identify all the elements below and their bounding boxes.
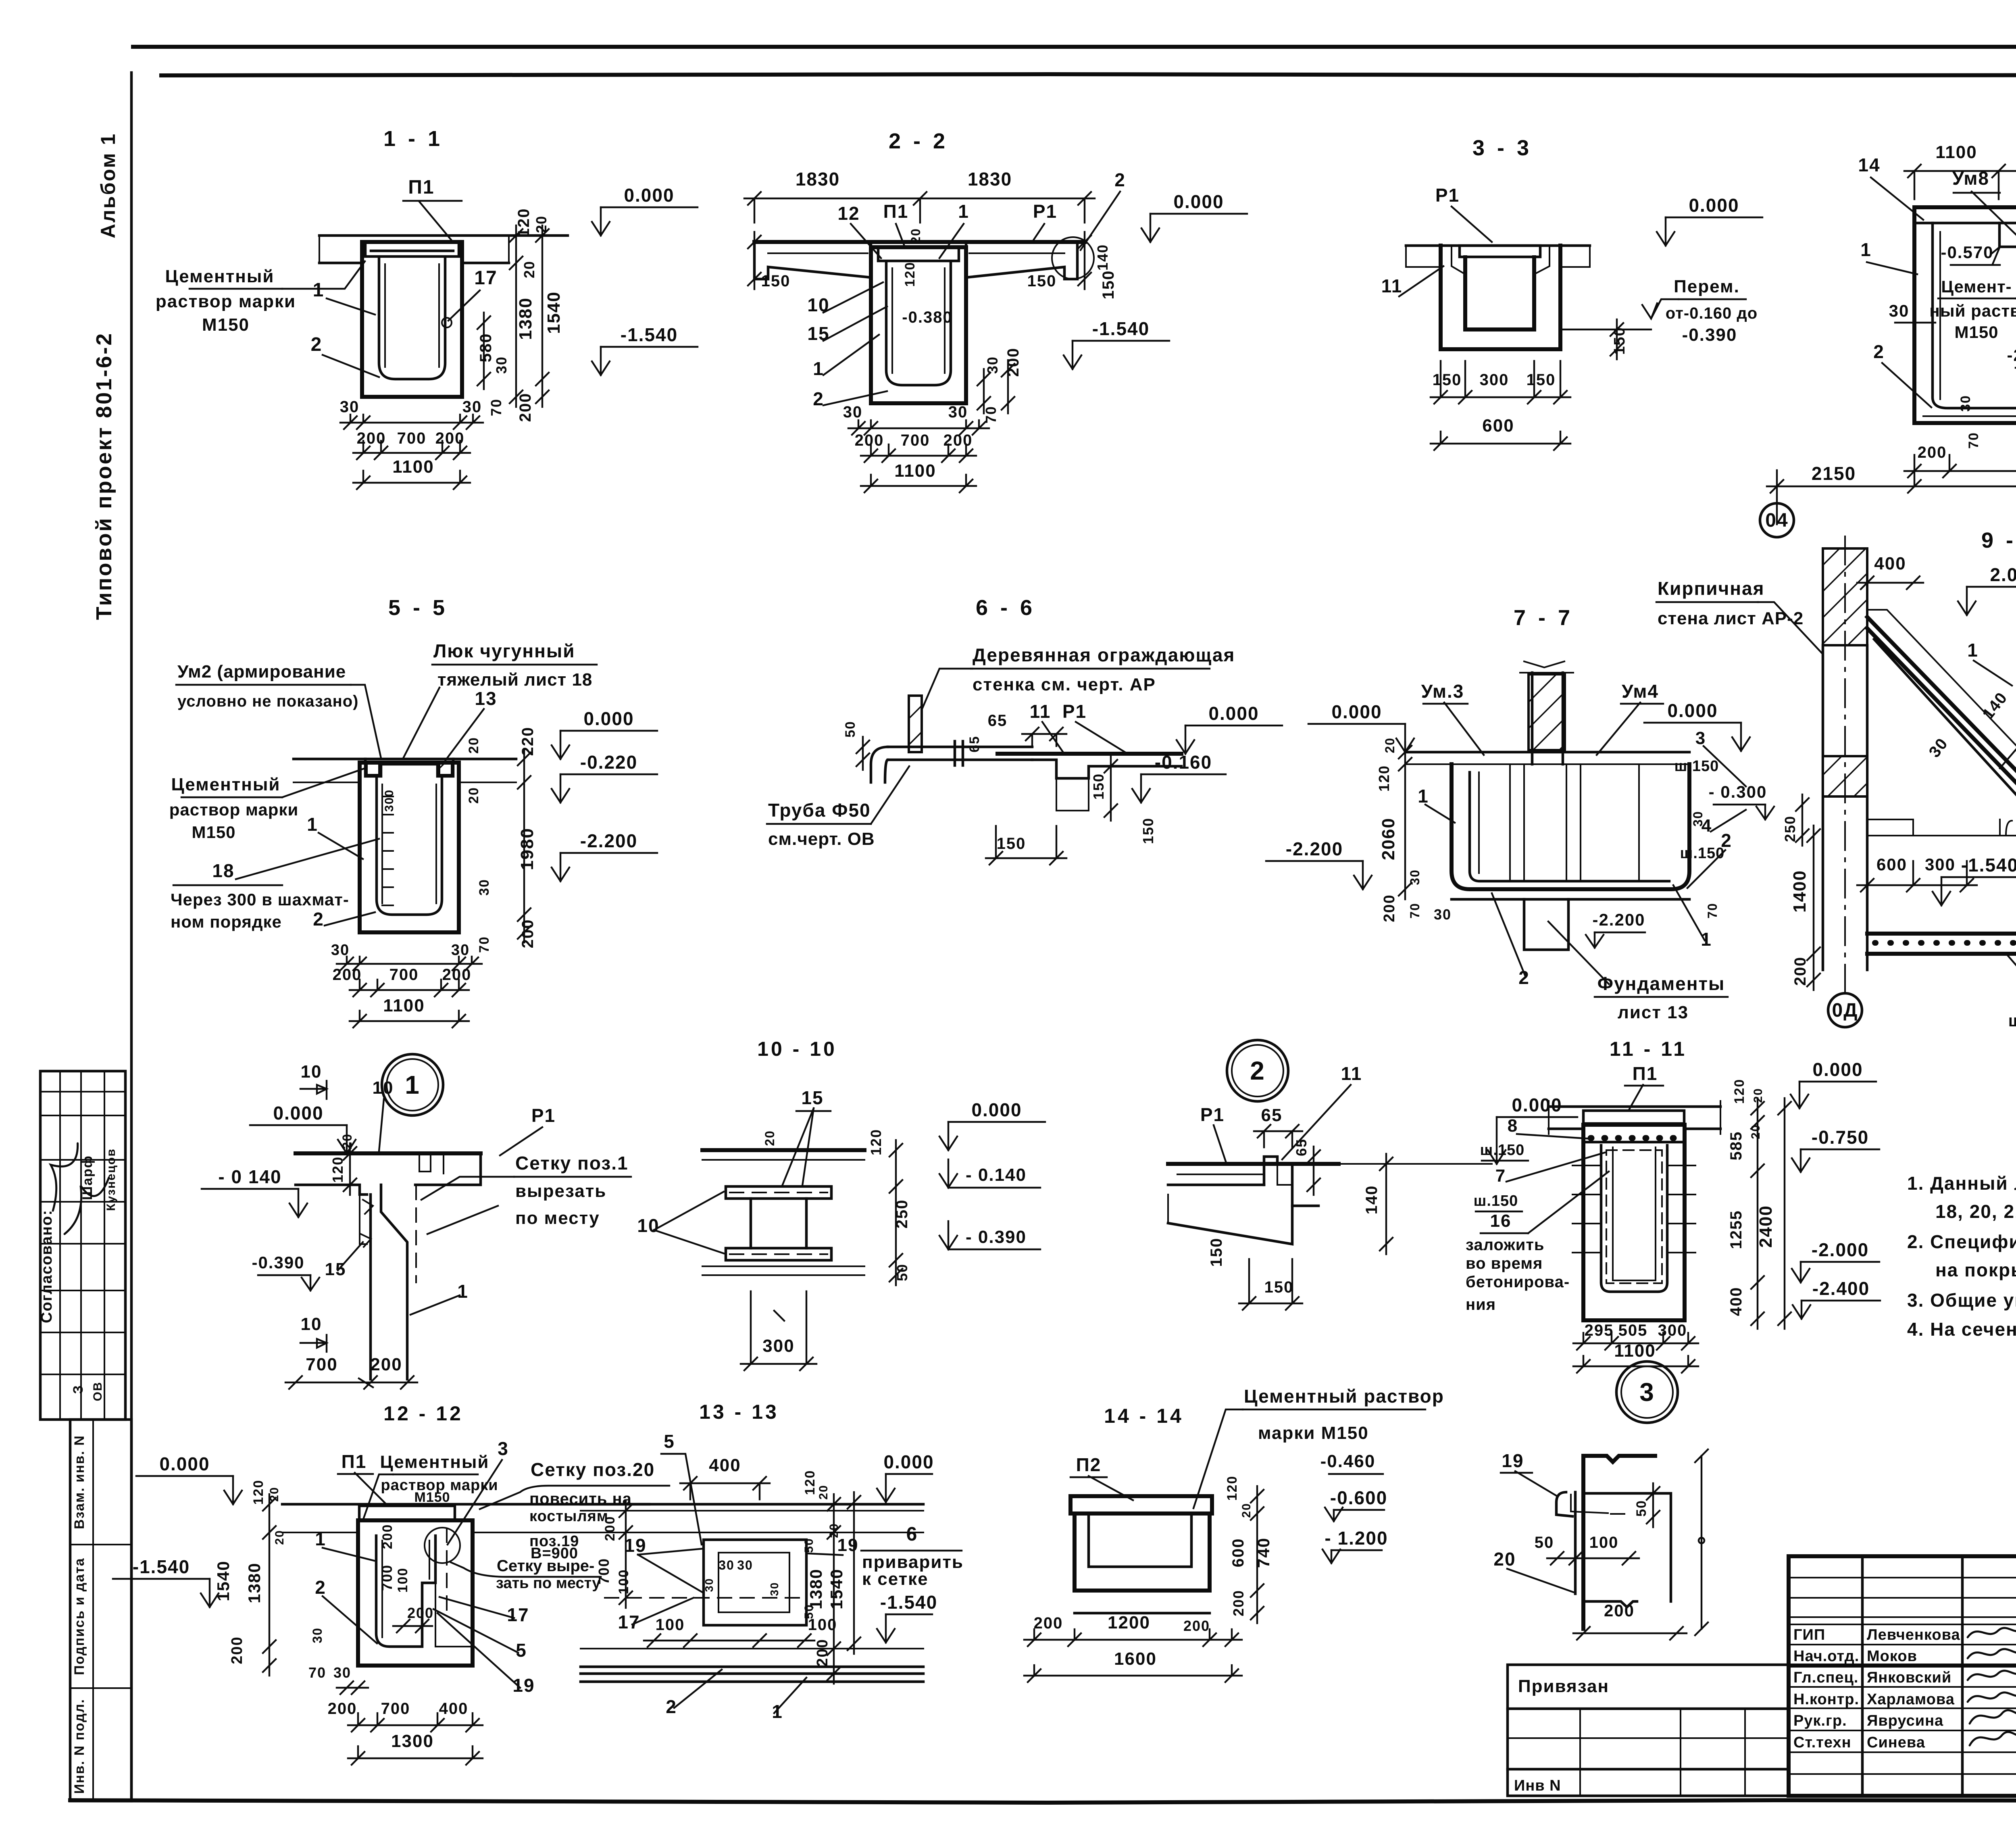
svg-text:200: 200 — [1791, 957, 1809, 986]
svg-text:ш. 150: ш. 150 — [2008, 1011, 2016, 1030]
drawing frame bottom — [70, 1800, 2016, 1803]
section 11-11 duct body — [1583, 1125, 1685, 1320]
svg-text:150: 150 — [1100, 270, 1117, 300]
svg-text:1200: 1200 — [1108, 1613, 1150, 1632]
svg-text:2: 2 — [1114, 169, 1126, 190]
svg-text:1380: 1380 — [245, 1562, 264, 1603]
svg-text:Фундаменты: Фундаменты — [1597, 973, 1725, 994]
section 3-3 floor band — [1406, 244, 1590, 247]
svg-text:1830: 1830 — [796, 169, 840, 190]
section 10-10 slab band — [702, 1148, 864, 1152]
node 1 dashed mesh line — [415, 1186, 417, 1282]
side stamp: signature squiggles — [35, 1143, 95, 1211]
section 12-12 labels 1 2 — [323, 1548, 374, 1561]
svg-text:Ум2 (армирование: Ум2 (армирование — [177, 662, 346, 682]
section 3-3 label 11 — [1399, 266, 1443, 296]
section 11-11 inner cage — [1601, 1145, 1667, 1292]
section 13-13 bottom slab lines — [581, 1648, 923, 1649]
section 13-13 slab band — [581, 1503, 923, 1506]
svg-text:Р1: Р1 — [531, 1105, 556, 1126]
section 11-11 elevation 0.000 — [1799, 1082, 1800, 1108]
section 7-7 label 1 right low — [1673, 885, 1705, 940]
svg-text:14 - 14: 14 - 14 — [1104, 1405, 1184, 1427]
svg-text:200: 200 — [380, 1524, 395, 1549]
svg-text:13 - 13: 13 - 13 — [699, 1401, 779, 1423]
svg-text:Яврусина: Яврусина — [1867, 1712, 1943, 1729]
svg-text:200: 200 — [442, 966, 472, 984]
svg-text:- 0.390: - 0.390 — [966, 1227, 1027, 1247]
section 9-9 ledge right of wall — [1867, 819, 2016, 836]
section 6-6 floor slab right — [998, 752, 1181, 756]
svg-text:20: 20 — [521, 261, 537, 278]
svg-text:50: 50 — [802, 1604, 816, 1619]
svg-text:-1.540: -1.540 — [1961, 855, 2016, 876]
section 2-2 channel — [871, 247, 966, 403]
svg-text:30: 30 — [843, 403, 863, 421]
node 1 label Р1 — [500, 1127, 542, 1155]
svg-text:ш.150: ш.150 — [1480, 1142, 1525, 1159]
svg-text:1380: 1380 — [806, 1568, 825, 1609]
node 2 slab band — [1168, 1162, 1339, 1166]
svg-text:2: 2 — [1873, 341, 1885, 362]
svg-text:-2.200: -2.200 — [1286, 838, 1343, 859]
svg-text:200: 200 — [1918, 444, 1947, 461]
svg-text:Цементный раствор: Цементный раствор — [1244, 1386, 1444, 1407]
section 13-13 dashed line — [605, 1597, 808, 1599]
svg-text:2: 2 — [313, 909, 324, 930]
svg-text:15: 15 — [801, 1087, 823, 1108]
svg-text:12 - 12: 12 - 12 — [383, 1402, 463, 1425]
svg-text:Моков: Моков — [1867, 1648, 1917, 1665]
svg-text:1540: 1540 — [544, 291, 564, 334]
svg-text:-1.540: -1.540 — [621, 324, 678, 345]
svg-text:20: 20 — [762, 1130, 777, 1146]
svg-text:100: 100 — [616, 1569, 631, 1595]
section 1-1 leader 1 — [327, 298, 375, 315]
svg-text:300: 300 — [1480, 371, 1509, 389]
svg-text:150: 150 — [1140, 817, 1156, 844]
svg-text:З: З — [71, 1384, 86, 1394]
section 5-5 anchor serration on inner wall — [382, 796, 393, 797]
svg-text:М150: М150 — [202, 315, 250, 335]
section 10-10 elevation 0.000 — [948, 1122, 949, 1150]
section 2-2 floor slab with haunches — [754, 240, 1085, 244]
svg-text:65: 65 — [988, 712, 1008, 730]
svg-text:11: 11 — [1381, 275, 1403, 296]
section 6-6 elevation -0.160 — [1140, 774, 1142, 803]
svg-text:10: 10 — [637, 1215, 659, 1236]
svg-text:10: 10 — [807, 294, 829, 315]
svg-text:200: 200 — [516, 393, 534, 422]
svg-text:Янковский: Янковский — [1867, 1669, 1951, 1686]
svg-text:1380: 1380 — [516, 297, 535, 340]
section 7-7 central pier shaft — [1532, 673, 1563, 764]
node 3 labels 19 20 — [1515, 1471, 1557, 1496]
svg-text:20: 20 — [1383, 737, 1397, 753]
svg-text:300: 300 — [1925, 855, 1956, 874]
svg-text:30: 30 — [1408, 869, 1422, 885]
section 13-13 embedded frame box — [704, 1540, 806, 1625]
svg-text:1: 1 — [307, 814, 318, 835]
svg-text:140: 140 — [1094, 244, 1111, 271]
section 5-5 label 1 — [319, 833, 363, 859]
svg-text:см.черт. ОВ: см.черт. ОВ — [768, 829, 875, 849]
svg-text:1100: 1100 — [1614, 1341, 1656, 1361]
svg-text:505: 505 — [1618, 1322, 1648, 1339]
svg-text:50: 50 — [1535, 1534, 1554, 1551]
section 11-11 side rebar ticks — [1572, 1165, 1601, 1166]
svg-text:2 - 2: 2 - 2 — [889, 129, 948, 153]
section 5-5 hatch lid — [365, 759, 453, 776]
section 10-10 embedded plates — [726, 1186, 831, 1199]
svg-text:18, 20, 21.: 18, 20, 21. — [1935, 1201, 2016, 1222]
section 12-12 left elevations — [232, 1476, 234, 1504]
section 14-14 label П2 — [1089, 1476, 1133, 1500]
section 9-9 label 3 ш.150 — [1704, 746, 1746, 786]
svg-text:65: 65 — [967, 736, 982, 753]
svg-text:9 - 9: 9 - 9 — [1981, 528, 2016, 552]
svg-text:Ст.техн: Ст.техн — [1793, 1734, 1851, 1751]
svg-text:100: 100 — [1589, 1534, 1619, 1551]
section 14-14 tank — [1075, 1514, 1210, 1591]
svg-text:В=900: В=900 — [531, 1545, 578, 1562]
svg-text:20: 20 — [340, 1133, 354, 1149]
svg-text:Сетку поз.1: Сетку поз.1 — [515, 1153, 629, 1174]
svg-text:1980: 1980 — [517, 828, 537, 870]
section 6-6 elevation 0.000 — [1185, 725, 1186, 754]
svg-text:16: 16 — [1490, 1211, 1512, 1231]
section 7-7 label Ум.3 — [1444, 703, 1484, 755]
svg-text:0.000: 0.000 — [583, 708, 634, 729]
svg-text:17: 17 — [618, 1612, 640, 1632]
svg-text:2.000: 2.000 — [1990, 564, 2016, 585]
svg-text:200: 200 — [519, 919, 537, 949]
svg-text:Р1: Р1 — [1033, 201, 1057, 222]
section 2-2 left leaders 10 15 1 2 — [823, 282, 883, 313]
svg-text:Взам. инв. N: Взам. инв. N — [72, 1435, 87, 1529]
svg-text:200: 200 — [814, 1639, 831, 1666]
svg-text:от-0.160 до: от-0.160 до — [1666, 304, 1758, 322]
section 4-4 labels 1 2 — [1867, 262, 1917, 274]
section 12-12 slab lines — [282, 1503, 649, 1506]
svg-text:П1: П1 — [883, 201, 909, 222]
svg-text:марки М150: марки М150 — [1258, 1423, 1369, 1443]
section 9-9 sloped channel — [1867, 617, 2016, 795]
svg-text:150: 150 — [1433, 371, 1462, 389]
svg-text:- 1.200: - 1.200 — [1325, 1528, 1388, 1549]
svg-text:вырезать: вырезать — [515, 1181, 606, 1201]
svg-text:П1: П1 — [408, 177, 434, 198]
section 5-5 label 18 — [236, 839, 379, 879]
svg-text:700: 700 — [901, 432, 930, 449]
svg-text:Кирпичная: Кирпичная — [1658, 578, 1764, 599]
svg-text:Подпись и дата: Подпись и дата — [72, 1557, 87, 1675]
side stamp: lower strip — [70, 1420, 131, 1801]
svg-text:к сетке: к сетке — [862, 1569, 929, 1589]
svg-text:20: 20 — [1749, 1124, 1762, 1139]
section 7-7 label Ум4 — [1597, 703, 1640, 755]
section 4-4 tank outline — [1914, 207, 2016, 423]
svg-text:Ум8: Ум8 — [1952, 168, 1989, 189]
svg-text:200: 200 — [370, 1355, 402, 1374]
section 11-11 elevation -2.400 — [1801, 1301, 1802, 1319]
svg-text:70: 70 — [308, 1664, 326, 1681]
svg-text:ГИП: ГИП — [1793, 1626, 1825, 1643]
svg-text:ОВ: ОВ — [91, 1382, 104, 1401]
section 11-11 cover plate П1 — [1583, 1111, 1684, 1124]
svg-text:120: 120 — [1732, 1079, 1747, 1104]
section 7-7 label 1 left — [1425, 805, 1455, 823]
svg-text:1. Данный лист рассматривать с: 1. Данный лист рассматривать совместно с… — [1907, 1173, 2016, 1194]
section 12-12 cover plate — [359, 1506, 455, 1520]
svg-text:М150: М150 — [1954, 323, 1998, 342]
svg-text:ш.150: ш.150 — [1474, 1192, 1518, 1209]
svg-text:Ум4: Ум4 — [1622, 681, 1659, 702]
svg-text:30: 30 — [477, 879, 492, 896]
svg-text:0.000: 0.000 — [883, 1451, 934, 1472]
section 9-9 elevation 0.000 — [1740, 723, 1742, 751]
svg-text:-2.000: -2.000 — [2007, 346, 2016, 365]
svg-text:0.000: 0.000 — [1208, 703, 1259, 724]
title block: left table rows — [1789, 1577, 2016, 1578]
svg-text:Согласовано:: Согласовано: — [38, 1209, 55, 1323]
section 12-12 inner step & dashed mesh — [422, 1583, 473, 1647]
svg-text:700: 700 — [397, 429, 427, 447]
svg-text:Цементный: Цементный — [380, 1452, 489, 1472]
svg-text:0.000: 0.000 — [1667, 700, 1718, 721]
svg-text:2. Спецификация на монолитные: 2. Спецификация на монолитные каналы дан… — [1907, 1231, 2016, 1252]
section 3-3 dim 150 right — [1616, 319, 1618, 359]
svg-text:200: 200 — [1604, 1601, 1635, 1620]
section 1-1 elevation 0.000 — [600, 207, 602, 236]
section 13-13 labels 2 1 bottom — [674, 1670, 722, 1708]
svg-text:заложить: заложить — [1466, 1236, 1545, 1254]
svg-text:200: 200 — [229, 1636, 246, 1664]
svg-text:Гл.спец.: Гл.спец. — [1793, 1669, 1858, 1686]
svg-text:1: 1 — [457, 1281, 469, 1302]
svg-text:20: 20 — [1240, 1503, 1253, 1518]
svg-text:раствор марки: раствор марки — [156, 292, 296, 311]
svg-text:580: 580 — [477, 333, 495, 363]
svg-text:700: 700 — [596, 1558, 612, 1584]
svg-text:200: 200 — [407, 1605, 434, 1621]
svg-text:раствор марки: раствор марки — [169, 800, 299, 819]
section 9-9 elevation -1.540 — [1941, 877, 1942, 905]
section 5-5 elevation 0.000 — [560, 731, 561, 759]
svg-text:Перем.: Перем. — [1674, 277, 1740, 296]
svg-text:17: 17 — [474, 267, 497, 289]
svg-text:-1.540: -1.540 — [133, 1556, 190, 1577]
section 11-11 labels 8 7 16 — [1517, 1134, 1593, 1139]
svg-text:10 - 10: 10 - 10 — [757, 1038, 837, 1060]
svg-text:120: 120 — [515, 208, 533, 238]
svg-text:70: 70 — [477, 936, 492, 953]
svg-text:6: 6 — [906, 1524, 918, 1545]
svg-text:700: 700 — [381, 1700, 410, 1718]
svg-text:600: 600 — [1482, 416, 1514, 436]
svg-text:220: 220 — [519, 727, 537, 756]
section 9-9 label 4 ш.150 — [1711, 810, 1746, 832]
svg-text:7 - 7: 7 - 7 — [1514, 606, 1573, 630]
section 2-2 labels 12 П1 1 Р1 2 — [851, 224, 881, 258]
svg-text:150: 150 — [1208, 1238, 1225, 1267]
section 7-7 slab line — [1405, 751, 1689, 754]
svg-text:70: 70 — [1408, 903, 1422, 919]
svg-text:2: 2 — [813, 388, 824, 409]
svg-text:19: 19 — [512, 1675, 535, 1696]
svg-text:лист 13: лист 13 — [1618, 1003, 1689, 1022]
svg-text:200: 200 — [1381, 894, 1398, 922]
node 3 vertical bar — [1574, 1492, 1577, 1594]
section 12-12 label 3 — [448, 1460, 502, 1545]
svg-text:-0.220: -0.220 — [580, 752, 637, 773]
svg-text:0.000: 0.000 — [273, 1103, 323, 1124]
section 5-5 label 2 — [325, 912, 375, 926]
section 14-14 base slab — [1075, 1612, 1210, 1615]
svg-text:Ум.3: Ум.3 — [1421, 681, 1464, 702]
section 4-4 bottom liner lines — [1923, 408, 2016, 416]
svg-text:Р1: Р1 — [1435, 185, 1460, 206]
svg-text:150: 150 — [1611, 327, 1628, 354]
svg-text:1: 1 — [1701, 929, 1712, 950]
svg-text:0.000: 0.000 — [1331, 701, 1382, 722]
section 7-7 brick pier above — [1529, 674, 1565, 750]
svg-text:400: 400 — [439, 1700, 469, 1718]
svg-text:ш.150: ш.150 — [1680, 845, 1725, 862]
svg-text:11 - 11: 11 - 11 — [1610, 1038, 1687, 1060]
section 12-12 channel outline — [358, 1520, 473, 1666]
svg-text:30: 30 — [1958, 395, 1973, 412]
svg-text:0.000: 0.000 — [1173, 191, 1224, 212]
drawing frame top (hand drawn) — [161, 74, 2016, 75]
section 13-13 elevations right — [885, 1474, 887, 1502]
section 1-1 elevation -1.540 — [600, 347, 602, 375]
svg-text:М150: М150 — [414, 1490, 450, 1505]
svg-text:20: 20 — [1493, 1549, 1516, 1570]
svg-text:150: 150 — [1264, 1278, 1294, 1296]
svg-text:200: 200 — [1230, 1590, 1247, 1616]
svg-text:Р1: Р1 — [1200, 1104, 1225, 1125]
title block: signatures — [1968, 1626, 2016, 1637]
svg-text:70: 70 — [488, 398, 504, 416]
section 1-1 cover plate П1 — [365, 242, 459, 256]
section 5-5 elevation -0.220 — [560, 774, 561, 803]
sheet outer border top — [133, 45, 2016, 49]
svg-text:200: 200 — [1183, 1618, 1210, 1634]
section 2-2 elevation -1.540 — [1072, 341, 1073, 369]
svg-text:30: 30 — [451, 942, 470, 959]
svg-text:2060: 2060 — [1379, 817, 1398, 860]
svg-text:1: 1 — [772, 1701, 783, 1722]
node 2 sloping wedge — [1168, 1206, 1292, 1244]
section 9-9 bottom channel rebar dots — [1875, 940, 2016, 946]
svg-text:20: 20 — [466, 787, 481, 804]
svg-text:ный раствор: ный раствор — [1929, 301, 2016, 320]
svg-text:200: 200 — [333, 966, 362, 984]
svg-text:М150: М150 — [192, 823, 235, 842]
node 3 hook поз.19 — [1556, 1492, 1572, 1516]
svg-text:30: 30 — [948, 403, 968, 421]
svg-text:2: 2 — [1250, 1056, 1265, 1085]
svg-text:2: 2 — [1518, 967, 1530, 988]
svg-text:1 - 1: 1 - 1 — [383, 127, 443, 151]
svg-text:-1.540: -1.540 — [1092, 318, 1150, 339]
svg-text:-0.390: -0.390 — [1682, 325, 1737, 345]
svg-text:120: 120 — [251, 1480, 266, 1505]
svg-text:1: 1 — [1967, 640, 1979, 661]
svg-text:Привязан: Привязан — [1518, 1676, 1609, 1696]
section 3-3 channel block — [1441, 246, 1560, 349]
svg-text:1830: 1830 — [968, 169, 1012, 190]
node 2 labels Р1 65 11 — [1214, 1125, 1226, 1161]
node 1 circle — [382, 1054, 443, 1115]
section 7-7 foundation block — [1524, 899, 1568, 950]
section 7-7 tank outline — [1452, 764, 1689, 889]
svg-text:6 - 6: 6 - 6 — [976, 596, 1035, 620]
svg-text:120: 120 — [868, 1129, 884, 1155]
svg-text:400: 400 — [1727, 1287, 1745, 1316]
svg-text:30: 30 — [340, 398, 360, 416]
svg-text:3 - 3: 3 - 3 — [1472, 136, 1532, 160]
svg-text:-0.160: -0.160 — [1155, 752, 1212, 773]
svg-text:10: 10 — [301, 1314, 322, 1334]
section 5-5 channel — [360, 763, 459, 932]
svg-text:140: 140 — [1363, 1185, 1381, 1215]
axis 04 circle — [1776, 503, 1778, 524]
svg-text:120: 120 — [1225, 1476, 1240, 1501]
svg-text:1: 1 — [405, 1070, 420, 1099]
svg-text:10: 10 — [301, 1062, 322, 1082]
section 9-9 label 9 ш.150 slope — [2008, 956, 2016, 993]
svg-text:1600: 1600 — [1114, 1649, 1157, 1669]
svg-text:Нач.отд.: Нач.отд. — [1793, 1648, 1859, 1665]
svg-text:5 - 5: 5 - 5 — [388, 596, 448, 620]
svg-text:1: 1 — [958, 201, 969, 222]
svg-text:-0.380: -0.380 — [902, 309, 952, 326]
svg-text:2: 2 — [666, 1696, 677, 1717]
svg-text:30: 30 — [333, 1664, 351, 1681]
svg-text:585: 585 — [1727, 1131, 1745, 1161]
section 7-7 elevation 0.000 left — [1404, 724, 1406, 752]
section 1-1 dim 580 — [483, 313, 485, 389]
small table Привязан — [1508, 1665, 1789, 1796]
svg-text:по месту: по месту — [515, 1208, 600, 1228]
svg-text:2: 2 — [311, 334, 323, 355]
section 12-12 bottom — [358, 1664, 473, 1667]
svg-text:30: 30 — [1889, 301, 1910, 320]
svg-text:Н.контр.: Н.контр. — [1793, 1691, 1859, 1708]
section 1-1 channel outline — [362, 242, 462, 397]
section 6-6 wooden wall hatched — [909, 696, 922, 752]
svg-text:200: 200 — [602, 1516, 618, 1541]
svg-text:3: 3 — [1639, 1378, 1655, 1407]
section 4-4 top slab underside — [1914, 222, 2016, 225]
section 9-9 elevation 2.000 — [1966, 587, 1968, 615]
svg-text:30: 30 — [768, 1582, 781, 1596]
svg-text:700: 700 — [306, 1355, 337, 1374]
svg-text:во время: во время — [1466, 1255, 1543, 1272]
svg-text:П1: П1 — [1633, 1063, 1658, 1084]
svg-text:3: 3 — [1695, 728, 1706, 748]
svg-text:70: 70 — [1966, 432, 1981, 449]
section 2-2 elevation 0.000 — [1150, 214, 1151, 242]
svg-text:2400: 2400 — [1756, 1205, 1776, 1248]
svg-text:Цементный: Цементный — [165, 267, 275, 286]
svg-text:Цементный: Цементный — [171, 775, 281, 794]
svg-text:-0.460: -0.460 — [1320, 1451, 1376, 1471]
svg-text:30: 30 — [310, 1627, 325, 1643]
svg-text:0.000: 0.000 — [1512, 1094, 1562, 1115]
